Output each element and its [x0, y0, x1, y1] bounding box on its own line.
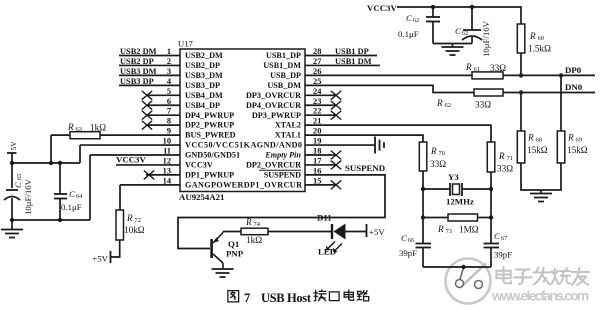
svg-text:10kΩ: 10kΩ [124, 225, 145, 235]
wire pin 23 stub [305, 104, 336, 106]
LED D11 [317, 213, 346, 257]
wire pin 2 [119, 64, 180, 66]
capacitor C62 (0.1uF) [398, 7, 440, 44]
svg-text:8: 8 [167, 117, 171, 126]
svg-text:AU9254A21: AU9254A21 [179, 192, 224, 202]
capacitor C65 [4, 174, 33, 215]
wire bottom ground rail [12, 219, 90, 221]
svg-text:65: 65 [16, 174, 23, 180]
watermark logo circle [446, 259, 491, 304]
resistor R61 [465, 62, 506, 79]
wire R70 leg to crystal node [422, 171, 424, 218]
node USB pin 2 label USB2 DP [120, 57, 154, 66]
svg-text:+5V: +5V [369, 227, 385, 237]
svg-text:USB_DP: USB_DP [270, 71, 301, 80]
svg-text:1.5kΩ: 1.5kΩ [528, 44, 551, 54]
power VCC3V [367, 3, 397, 13]
svg-text:VCC3V: VCC3V [185, 161, 213, 170]
svg-text:USB2_DM: USB2_DM [185, 51, 223, 60]
svg-text:Y3: Y3 [448, 172, 459, 182]
svg-text:68: 68 [536, 137, 542, 144]
svg-text:39pF: 39pF [399, 248, 417, 258]
svg-text:73: 73 [446, 228, 452, 235]
wire VCC3V rail [397, 7, 521, 24]
svg-text:70: 70 [439, 150, 445, 157]
svg-text:GANGPOWERDP1_OVRCUR: GANGPOWERDP1_OVRCUR [185, 180, 302, 189]
wire pin 19 AGND [305, 144, 375, 146]
no-connect X pin 24 [331, 91, 341, 100]
power +5V (LED) [367, 224, 386, 237]
svg-text:USB Host: USB Host [261, 291, 312, 305]
wire pin 25 USB_DM with jog [305, 85, 474, 92]
capacitor C62b (10uF/16V electrolytic) [455, 7, 491, 57]
resistor R73 [423, 214, 491, 235]
IC U17 AU9254A21 body [178, 39, 305, 203]
svg-text:VCC50/VCC51KAGND/AND0: VCC50/VCC51KAGND/AND0 [185, 141, 302, 150]
svg-text:C: C [406, 13, 412, 23]
svg-text:C: C [13, 182, 23, 188]
svg-text:67: 67 [501, 235, 507, 242]
svg-text:www.elecfans.com: www.elecfans.com [491, 289, 589, 304]
svg-text:R: R [436, 98, 443, 108]
wire pin 21 XTAL2 [305, 125, 491, 142]
power +5V (R72) [92, 251, 110, 264]
svg-text:7: 7 [244, 291, 250, 305]
svg-text:DN0: DN0 [565, 82, 583, 92]
wire pin 14 GANGPOWER [120, 184, 180, 186]
no-connect X pin 15 [331, 180, 341, 189]
svg-text:BUS_PWRED: BUS_PWRED [185, 131, 236, 140]
wire pin 20 XTAL1 [305, 135, 423, 142]
resistor R70 [419, 142, 446, 171]
svg-text:15kΩ: 15kΩ [567, 145, 588, 155]
no-connect X pin 13 [144, 171, 154, 180]
ground (Q1 collector) [212, 269, 234, 277]
wire R74 to LED [268, 231, 332, 233]
svg-text:USB1_DM: USB1_DM [263, 61, 301, 70]
svg-text:Q1: Q1 [228, 239, 239, 249]
svg-text:C: C [401, 233, 407, 243]
svg-text:GND50/GND51: GND50/GND51 [185, 151, 240, 160]
wire pin 28 stub [305, 55, 377, 57]
wire pin 26 USB_DP [305, 74, 472, 76]
svg-text:33Ω: 33Ω [497, 164, 513, 174]
capacitor C66 [399, 218, 431, 268]
node DN0 [565, 82, 583, 92]
svg-text:XTAL2: XTAL2 [275, 121, 301, 130]
svg-text:SUSPEND: SUSPEND [264, 171, 301, 180]
svg-text:25: 25 [313, 77, 321, 86]
no-connect X pin 23 [331, 101, 341, 110]
power 5V input [7, 141, 18, 153]
svg-text:10μF/16V: 10μF/16V [23, 178, 33, 215]
resistor R60 [517, 24, 551, 54]
svg-text:21: 21 [313, 117, 321, 126]
resistor R74 [241, 217, 268, 245]
svg-text:60: 60 [538, 35, 544, 42]
wire pin 6 stub [147, 104, 180, 106]
svg-text:DP0: DP0 [565, 65, 582, 75]
wire pin 11 drop to ground rail [89, 155, 91, 220]
ground (C62 pair) [442, 44, 464, 56]
svg-text:12MHz: 12MHz [446, 197, 474, 207]
wire pin 10 VCC50 [80, 144, 180, 146]
ground (R68/R69) [530, 190, 552, 202]
svg-text:4: 4 [167, 77, 172, 86]
svg-text:5V: 5V [9, 141, 18, 151]
svg-text:14: 14 [163, 176, 172, 185]
wire R61 to DP0 [503, 74, 595, 76]
svg-text:U17: U17 [178, 39, 194, 49]
wire pin 13 stub [146, 174, 180, 176]
svg-text:USB4_DM: USB4_DM [185, 91, 223, 100]
svg-text:SUSPEND: SUSPEND [345, 163, 385, 173]
wire R60 to DP line [520, 53, 522, 75]
svg-text:DP3_PWRUP: DP3_PWRUP [252, 111, 301, 120]
wire pin 12 [116, 164, 180, 166]
svg-text:USB1 DP: USB1 DP [335, 47, 369, 56]
svg-text:62: 62 [413, 17, 419, 24]
no-connect X pin 22 [331, 111, 341, 120]
svg-text:VCC3V: VCC3V [367, 3, 397, 13]
svg-text:USB_DM: USB_DM [267, 81, 301, 90]
svg-text:R: R [527, 133, 534, 143]
wire C62 bottoms join [433, 43, 472, 45]
svg-text:39pF: 39pF [494, 250, 512, 260]
node USB1 DP [335, 47, 369, 56]
wire pin 11 GND [90, 154, 180, 156]
crystal Y3 12MHz [423, 172, 491, 207]
svg-text:10μF/16V: 10μF/16V [481, 20, 491, 57]
svg-text:R: R [529, 31, 536, 41]
resistor R68 [517, 131, 547, 163]
svg-text:USB4_DP: USB4_DP [185, 101, 220, 110]
wire DP to R69 [560, 75, 562, 131]
svg-text:15kΩ: 15kΩ [527, 145, 548, 155]
node SUSPEND label [345, 163, 385, 173]
svg-text:R: R [498, 151, 505, 161]
svg-text:C: C [69, 189, 75, 199]
node USB1 DM [335, 57, 372, 66]
svg-text:1MΩ: 1MΩ [459, 225, 479, 235]
svg-text:62: 62 [445, 102, 451, 109]
watermark url [491, 289, 589, 304]
wire 5V rail vertical [11, 153, 13, 188]
wire pin 10 drop [79, 145, 81, 163]
svg-text:69: 69 [576, 137, 582, 144]
svg-text:XTAL1: XTAL1 [275, 131, 301, 140]
wire LED to +5V [346, 231, 367, 233]
wire R68/R69 to ground [521, 163, 561, 190]
node DP0 [565, 65, 582, 75]
svg-text:DP1_PWRUP: DP1_PWRUP [185, 171, 234, 180]
svg-text:17: 17 [313, 156, 321, 165]
svg-text:33Ω: 33Ω [475, 100, 491, 110]
svg-text:VCC3V: VCC3V [116, 155, 146, 165]
ground (pin 19, sideways) [375, 137, 384, 154]
no-connect X pin 8 [142, 121, 152, 130]
svg-text:USB1 DM: USB1 DM [335, 57, 372, 66]
wire DN to R68 [520, 93, 522, 132]
svg-text:D11: D11 [317, 213, 332, 223]
svg-text:DP2_OVRCUR: DP2_OVRCUR [246, 161, 301, 170]
caption figure 7 USB Host [228, 290, 369, 305]
resistor R63 [67, 122, 106, 139]
IC left pin numbers 1-14 [163, 47, 172, 185]
svg-text:LED: LED [318, 247, 336, 257]
wire pin 14 down to R72 [119, 185, 121, 210]
svg-text:Empty Pin: Empty Pin [264, 151, 301, 160]
svg-text:DP4_OVRCUR: DP4_OVRCUR [246, 101, 301, 110]
svg-text:DP4_PWRUP: DP4_PWRUP [185, 111, 234, 120]
svg-text:62: 62 [462, 30, 468, 37]
wire R63 down to 5V node [50, 135, 52, 163]
svg-text:74: 74 [254, 221, 261, 228]
svg-text:64: 64 [76, 193, 82, 200]
wire crystal bottom rail [423, 266, 491, 268]
svg-text:0.1μF: 0.1μF [398, 29, 419, 39]
node VCC3V label at pin 12 [116, 155, 146, 165]
wire pin 17 stub [305, 164, 336, 166]
wire R71 leg to crystal node [490, 172, 492, 218]
svg-text:USB1_DP: USB1_DP [266, 51, 301, 60]
wire pin 27 stub [305, 64, 380, 66]
svg-text:R: R [465, 62, 472, 72]
svg-text:DP2_PWRUP: DP2_PWRUP [185, 121, 234, 130]
node USB pin 4 label USB3 DP [120, 77, 154, 86]
wire 5V node row [12, 162, 80, 164]
svg-text:66: 66 [408, 237, 414, 244]
svg-text:33Ω: 33Ω [430, 159, 446, 169]
svg-text:15: 15 [313, 176, 321, 185]
watermark text dianzifashaoyou [496, 267, 588, 285]
svg-text:C: C [494, 231, 500, 241]
junction dots left [10, 161, 14, 165]
resistor R71 [487, 142, 513, 174]
wire pin 1 [119, 55, 180, 57]
svg-text:USB3_DM: USB3_DM [185, 71, 223, 80]
no-connect X pin 18 [331, 151, 341, 160]
node USB pin 1 label USB2 DM [120, 47, 157, 56]
no-connect X pin 5 [142, 91, 152, 100]
svg-text:R: R [67, 122, 74, 132]
svg-text:R: R [245, 217, 252, 227]
wire pin 22 stub [305, 114, 336, 116]
svg-text:72: 72 [135, 217, 141, 224]
svg-text:USB2_DP: USB2_DP [185, 61, 220, 70]
wire pin 3 [119, 74, 180, 76]
IC U17 internal pin labels [185, 51, 302, 189]
wire pin 16 SUSPEND loop to Q1 base [178, 175, 385, 249]
wire pin 18 stub [305, 154, 336, 156]
svg-text:C: C [455, 26, 461, 36]
resistor R72 [116, 210, 145, 240]
svg-text:R: R [567, 133, 574, 143]
svg-text:1kΩ: 1kΩ [246, 235, 262, 245]
wire pin 9 to R63 [100, 134, 180, 136]
node USB pin 3 label USB3 DM [120, 67, 157, 76]
IC right pin numbers 28-15 [313, 47, 322, 185]
svg-text:71: 71 [507, 155, 513, 162]
capacitor C67 [484, 218, 513, 268]
wire emitter to R74 [223, 231, 241, 233]
svg-text:R: R [437, 224, 444, 234]
wire pin 5 stub [147, 94, 180, 96]
resistor R69 [557, 131, 587, 163]
wire pin 7 stub [147, 114, 180, 116]
svg-text:+5V: +5V [92, 254, 108, 264]
wire pin 24 stub [305, 94, 336, 96]
no-connect X pin 17 [331, 161, 341, 170]
wire pin 8 stub [147, 124, 180, 126]
svg-text:R: R [430, 146, 437, 156]
svg-text:R: R [126, 213, 133, 223]
junction dots VCC3V rail [431, 5, 435, 9]
junction dot on crystal rail [461, 265, 465, 269]
svg-text:PNP: PNP [226, 249, 244, 259]
svg-text:12: 12 [163, 156, 171, 165]
wire pin 4 [119, 84, 180, 86]
wire R63 left leg [51, 134, 70, 136]
svg-text:DP3_OVRCUR: DP3_OVRCUR [246, 91, 301, 100]
capacitor C64 [54, 163, 82, 220]
no-connect X pin 7 [142, 111, 152, 120]
ground (left rail) [1, 220, 23, 238]
no-connect X pin 6 [142, 101, 152, 110]
resistor R62 [436, 89, 503, 110]
wire R72 to +5V [111, 240, 120, 257]
wire R62 to DN0 [503, 92, 595, 94]
svg-text:USB3_DP: USB3_DP [185, 81, 220, 90]
transistor Q1 PNP [210, 232, 243, 269]
wire pin 15 stub [305, 184, 336, 186]
svg-text:0.1μF: 0.1μF [61, 202, 82, 212]
